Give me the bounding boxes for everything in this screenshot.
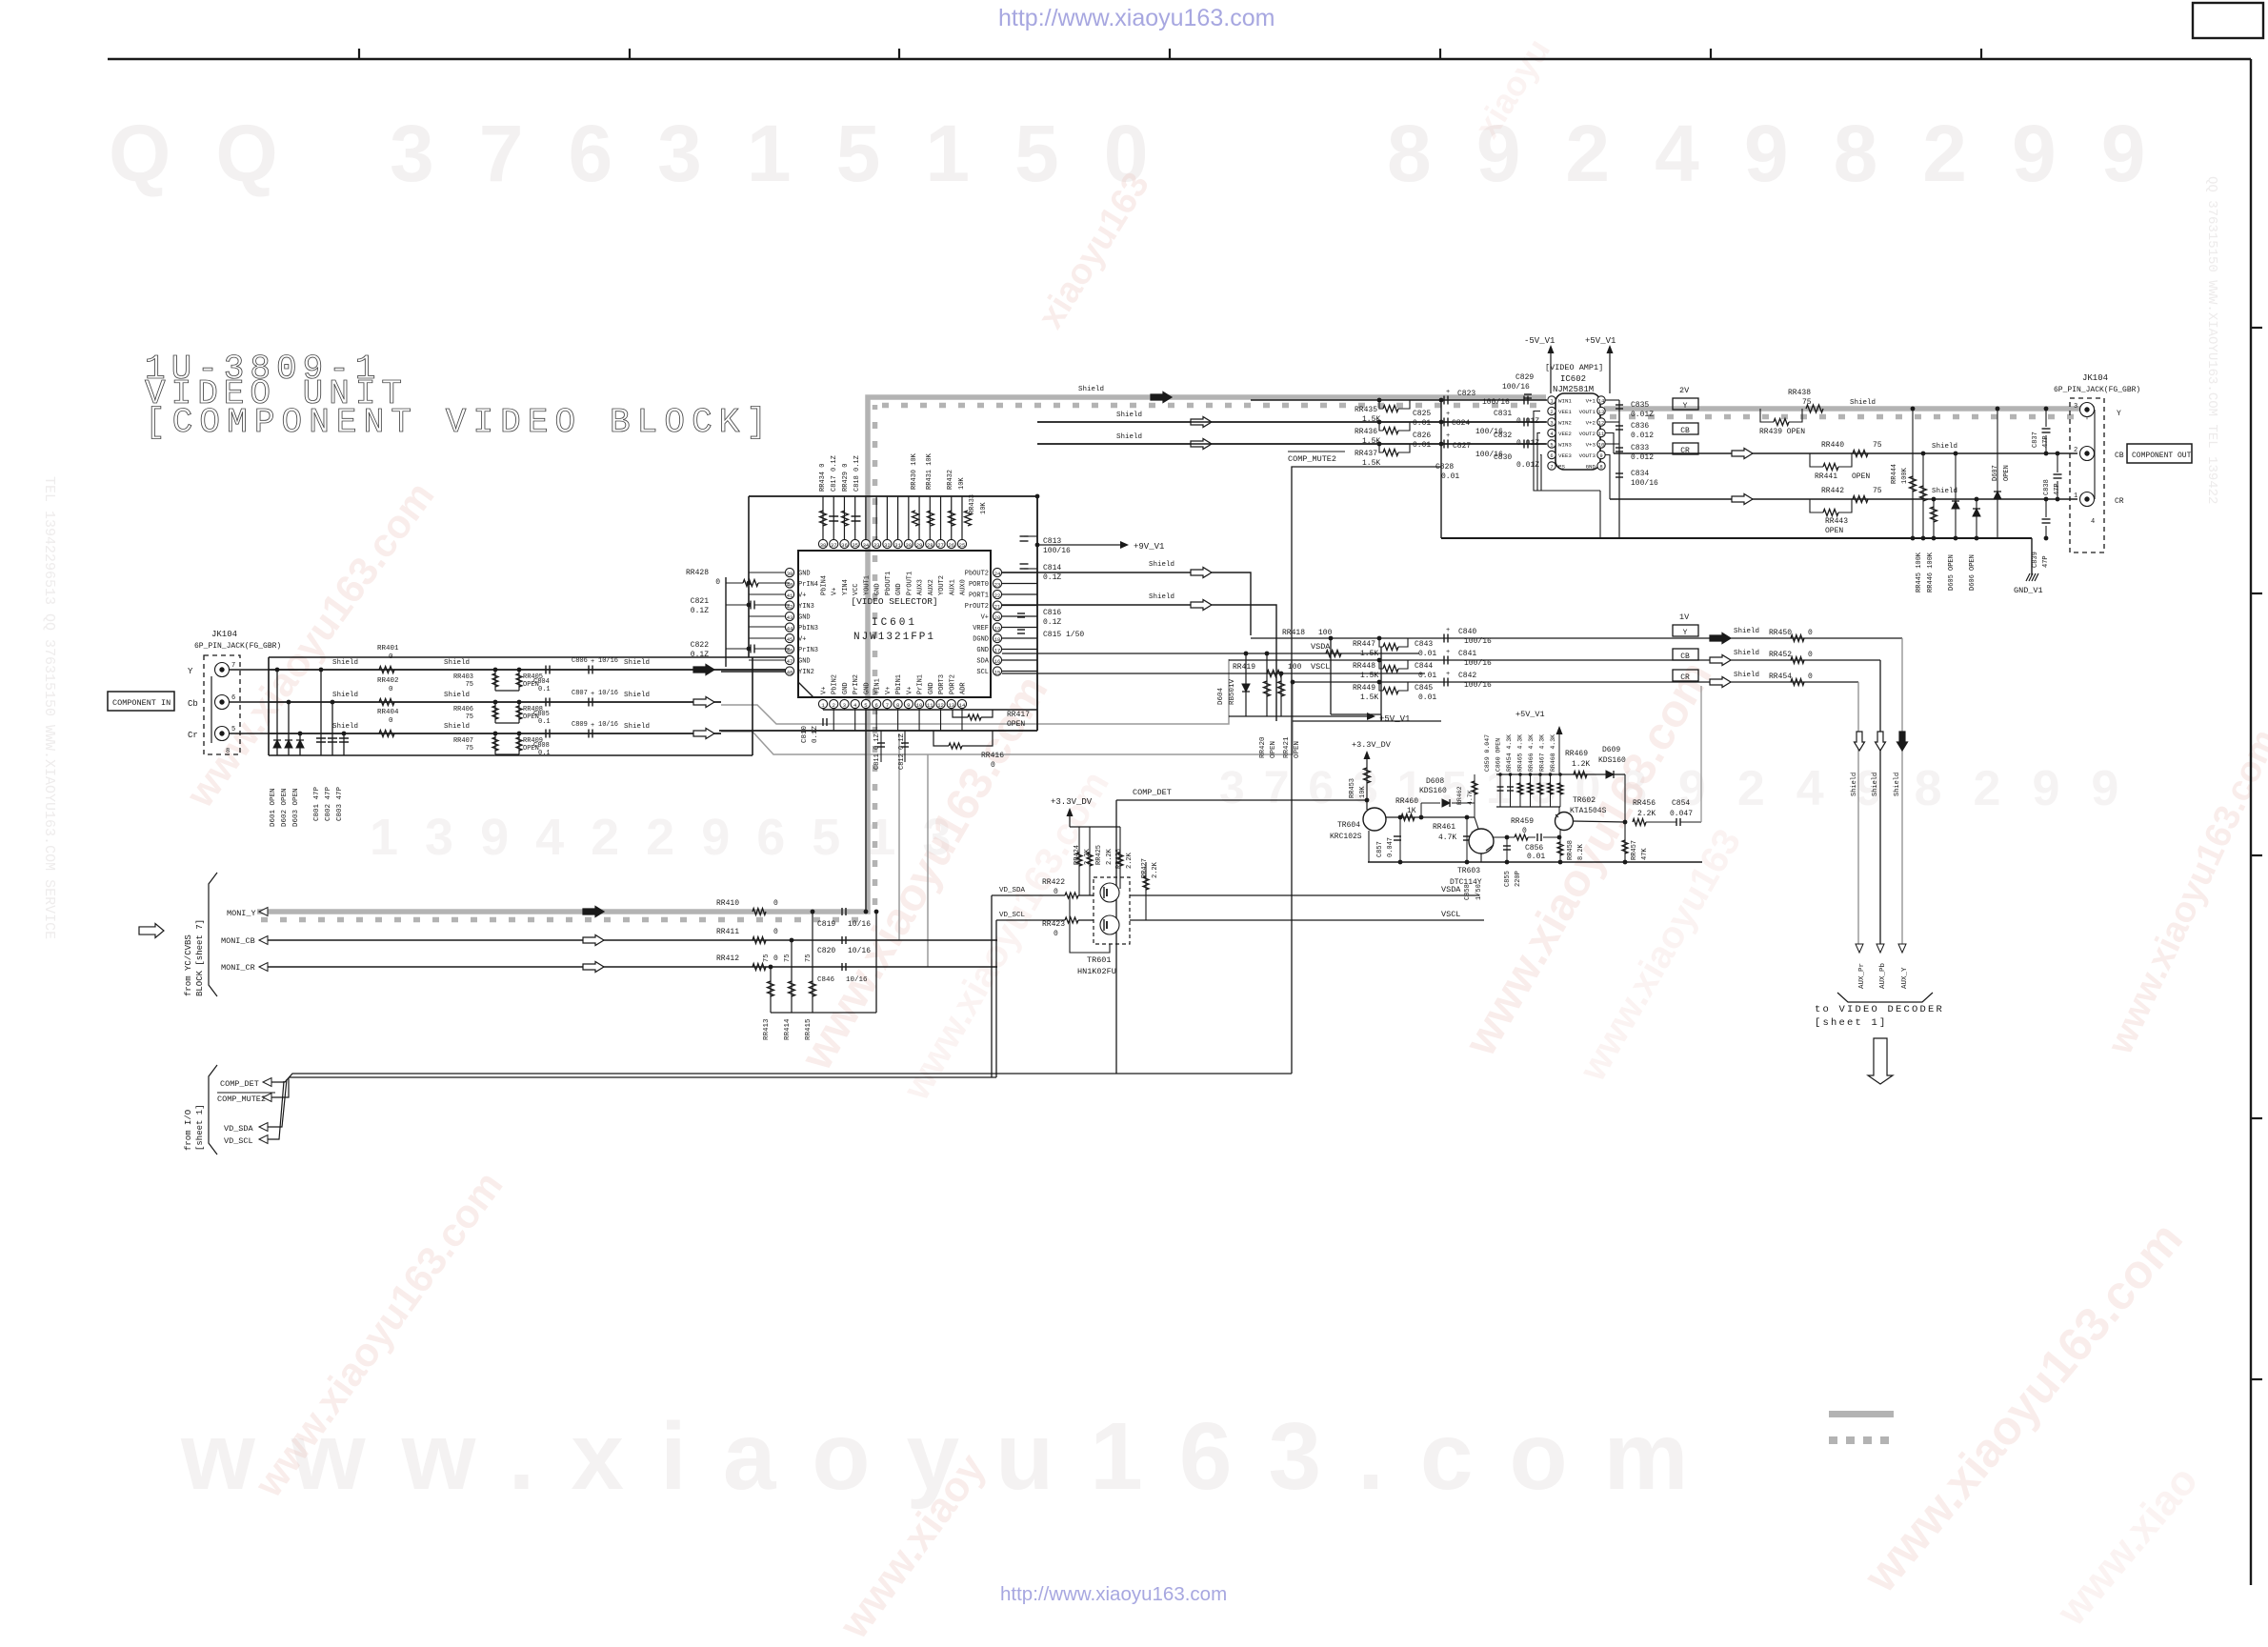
svg-text:HN1K02FU: HN1K02FU	[1077, 967, 1116, 976]
svg-text:75: 75	[466, 713, 473, 721]
svg-text:C857: C857	[1376, 841, 1384, 857]
svg-text:0: 0	[1808, 673, 1813, 681]
svg-text:24: 24	[994, 571, 1001, 577]
svg-text:Shield: Shield	[1932, 443, 1957, 451]
svg-text:8.2K: 8.2K	[1577, 843, 1585, 860]
svg-text:4: 4	[2091, 518, 2095, 526]
svg-text:100/16: 100/16	[1502, 383, 1530, 392]
svg-text:11: 11	[1598, 431, 1605, 437]
svg-text:Shield: Shield	[1078, 386, 1104, 393]
svg-text:26: 26	[948, 542, 954, 549]
svg-text:PbOUT2: PbOUT2	[965, 571, 989, 578]
svg-text:PbIN2: PbIN2	[832, 674, 839, 694]
svg-text:2.2K: 2.2K	[1106, 848, 1114, 865]
svg-text:C812 0.1Z: C812 0.1Z	[898, 733, 906, 770]
svg-text:47: 47	[787, 658, 793, 665]
svg-text:PORT0: PORT0	[969, 581, 989, 589]
svg-text:RR432: RR432	[947, 470, 954, 490]
svg-text:RR434 0: RR434 0	[819, 464, 827, 492]
svg-text:JK104: JK104	[2082, 373, 2108, 383]
svg-text:RR462: RR462	[1456, 786, 1463, 805]
svg-text:Shield: Shield	[332, 659, 358, 667]
svg-text:12: 12	[1598, 420, 1605, 427]
svg-text:PrIN4: PrIN4	[798, 581, 818, 589]
svg-text:10K: 10K	[1359, 786, 1367, 798]
svg-text:0.012: 0.012	[1631, 432, 1654, 440]
svg-text:11: 11	[927, 702, 933, 709]
svg-text:0.01: 0.01	[1413, 441, 1431, 450]
svg-text:100: 100	[1318, 629, 1333, 637]
svg-text:C856: C856	[1525, 844, 1543, 853]
svg-text:DGND: DGND	[973, 636, 989, 644]
svg-text:C844: C844	[1415, 662, 1433, 671]
svg-text:2.2K: 2.2K	[1126, 852, 1134, 869]
svg-text:C845: C845	[1415, 684, 1433, 693]
svg-text:RR415: RR415	[805, 1018, 813, 1040]
svg-text:V+: V+	[885, 687, 893, 694]
svg-text:RR445 100K: RR445 100K	[1916, 552, 1923, 593]
svg-text:BLOCK [sheet 7]: BLOCK [sheet 7]	[195, 919, 205, 996]
svg-text:COMP_DET: COMP_DET	[220, 1079, 259, 1089]
svg-text:C815 1/50: C815 1/50	[1043, 631, 1084, 639]
svg-text:C829: C829	[1515, 373, 1534, 382]
svg-text:D608: D608	[1426, 777, 1444, 786]
svg-text:OPEN: OPEN	[1270, 741, 1277, 758]
svg-text:0.01: 0.01	[1418, 650, 1436, 658]
svg-text:4.7K: 4.7K	[1467, 790, 1474, 805]
svg-text:10/16: 10/16	[598, 721, 618, 729]
svg-text:3: 3	[843, 702, 846, 709]
svg-text:PbOUT1: PbOUT1	[885, 572, 893, 595]
svg-text:PbIN4: PbIN4	[821, 575, 829, 595]
svg-text:0: 0	[991, 761, 995, 770]
svg-text:10: 10	[1598, 442, 1605, 449]
svg-text:8: 8	[1599, 464, 1602, 471]
svg-text:C811 0.1Z: C811 0.1Z	[873, 733, 881, 770]
svg-text:MONI_CR: MONI_CR	[221, 963, 255, 973]
svg-text:6P_PIN_JACK(FG_GBR): 6P_PIN_JACK(FG_GBR)	[194, 642, 281, 651]
svg-text:RR457: RR457	[1631, 840, 1638, 860]
svg-text:2.2K: 2.2K	[1152, 861, 1159, 878]
svg-text:41: 41	[787, 593, 793, 599]
svg-text:RR428: RR428	[686, 569, 709, 577]
svg-text:+3.3V_DV: +3.3V_DV	[1352, 740, 1392, 750]
svg-text:6: 6	[874, 702, 877, 709]
svg-text:30: 30	[906, 542, 913, 549]
svg-text:VD_SDA: VD_SDA	[224, 1124, 254, 1134]
svg-text:4.7K: 4.7K	[1438, 834, 1456, 842]
svg-text:40: 40	[787, 581, 793, 588]
svg-text:38: 38	[820, 542, 827, 549]
svg-text:+3.3V_DV: +3.3V_DV	[1051, 797, 1093, 807]
svg-text:GND: GND	[1586, 464, 1596, 471]
svg-text:Y: Y	[1683, 402, 1688, 411]
svg-text:Shield: Shield	[444, 723, 470, 731]
svg-text:31: 31	[894, 542, 901, 549]
svg-text:V+2: V+2	[1586, 420, 1596, 427]
svg-text:D606 OPEN: D606 OPEN	[1969, 554, 1977, 591]
svg-text:D602 OPEN: D602 OPEN	[281, 788, 289, 827]
svg-text:25: 25	[959, 542, 966, 549]
svg-text:9: 9	[907, 702, 910, 709]
svg-text:C813: C813	[1043, 537, 1061, 546]
svg-text:VOUT2: VOUT2	[1579, 431, 1596, 437]
svg-text:0: 0	[715, 578, 720, 587]
svg-text:RR423: RR423	[1042, 920, 1065, 929]
svg-text:C801 47P: C801 47P	[313, 786, 321, 821]
svg-text:100/16: 100/16	[1464, 637, 1492, 646]
svg-text:VCC: VCC	[853, 583, 860, 595]
svg-text:PORT1: PORT1	[969, 593, 989, 600]
svg-text:TR604: TR604	[1337, 821, 1360, 830]
svg-text:RR447: RR447	[1353, 640, 1375, 649]
svg-text:10/16: 10/16	[848, 920, 871, 929]
svg-text:NJW1321FP1: NJW1321FP1	[853, 632, 935, 643]
svg-text:D604: D604	[1217, 687, 1225, 705]
svg-text:Shield: Shield	[1894, 773, 1901, 796]
svg-text:34: 34	[863, 542, 870, 549]
svg-text:VEE1: VEE1	[1558, 409, 1572, 415]
svg-text:RR417: RR417	[1007, 711, 1030, 719]
svg-text:C854: C854	[1672, 799, 1690, 808]
svg-text:0: 0	[773, 954, 778, 963]
svg-text:PS: PS	[1558, 464, 1565, 471]
svg-text:RR452: RR452	[1769, 651, 1792, 659]
svg-text:RR467 4.3K: RR467 4.3K	[1539, 734, 1546, 772]
svg-text:YOUT2: YOUT2	[938, 575, 946, 595]
svg-text:WIN2: WIN2	[1558, 420, 1572, 427]
svg-text:RR439 OPEN: RR439 OPEN	[1759, 428, 1805, 436]
svg-text:9: 9	[1599, 452, 1602, 459]
svg-text:RR440: RR440	[1821, 441, 1844, 450]
svg-text:RR418: RR418	[1282, 629, 1305, 637]
svg-text:V+: V+	[798, 636, 806, 644]
svg-text:46: 46	[787, 647, 793, 653]
svg-text:RR425: RR425	[1095, 845, 1103, 865]
svg-text:C818 0.1Z: C818 0.1Z	[853, 455, 861, 492]
svg-text:GND: GND	[874, 583, 882, 595]
svg-text:C820: C820	[817, 947, 835, 955]
svg-text:YIN4: YIN4	[842, 579, 850, 595]
svg-text:3: 3	[1550, 420, 1553, 427]
svg-text:C839: C839	[2032, 552, 2039, 568]
svg-text:220P: 220P	[1515, 871, 1522, 887]
svg-text:47P: 47P	[2054, 483, 2061, 495]
svg-text:C836: C836	[1631, 422, 1649, 431]
svg-text:19: 19	[994, 625, 1001, 632]
svg-text:28: 28	[927, 542, 933, 549]
svg-text:C803 47P: C803 47P	[336, 786, 344, 821]
svg-text:KDS160: KDS160	[1598, 756, 1626, 765]
svg-text:+: +	[1446, 389, 1450, 396]
svg-text:RR416: RR416	[981, 752, 1004, 760]
svg-text:18: 18	[994, 636, 1001, 643]
svg-text:+5V_V1: +5V_V1	[1379, 714, 1410, 724]
svg-text:36: 36	[841, 542, 848, 549]
svg-text:KRC102S: KRC102S	[1330, 833, 1362, 841]
svg-text:RR448: RR448	[1353, 662, 1375, 671]
svg-text:10/16: 10/16	[848, 947, 871, 955]
svg-text:39: 39	[787, 571, 793, 577]
svg-text:RR456: RR456	[1633, 799, 1656, 808]
svg-text:RR459: RR459	[1511, 817, 1534, 826]
svg-text:C814: C814	[1043, 564, 1061, 572]
svg-text:D609: D609	[1602, 746, 1620, 754]
svg-text:GND: GND	[976, 647, 989, 654]
svg-text:37: 37	[831, 542, 837, 549]
svg-text:C809: C809	[572, 721, 588, 729]
svg-text:RR461: RR461	[1433, 823, 1455, 832]
svg-text:RR431 10K: RR431 10K	[926, 452, 933, 490]
svg-text:5: 5	[231, 726, 235, 733]
svg-text:2: 2	[833, 702, 835, 709]
svg-text:+: +	[1446, 649, 1450, 656]
svg-text:13: 13	[1598, 409, 1605, 415]
svg-text:CB: CB	[1680, 653, 1690, 661]
svg-text:RR433: RR433	[969, 494, 976, 514]
svg-text:PrIN3: PrIN3	[798, 647, 818, 654]
svg-text:0: 0	[1808, 629, 1813, 637]
svg-text:V+: V+	[832, 588, 839, 595]
svg-text:VOUT3: VOUT3	[1579, 452, 1596, 459]
svg-text:+: +	[591, 658, 594, 666]
svg-text:75: 75	[805, 954, 813, 962]
svg-text:V+: V+	[906, 687, 913, 694]
svg-text:5: 5	[864, 702, 867, 709]
svg-text:75: 75	[1873, 441, 1882, 450]
svg-text:Shield: Shield	[624, 659, 650, 667]
svg-text:VD_SCL: VD_SCL	[999, 912, 1026, 919]
svg-text:V+: V+	[821, 687, 829, 694]
svg-text:RR458: RR458	[1567, 840, 1575, 860]
svg-text:C855: C855	[1504, 871, 1512, 887]
svg-text:10: 10	[916, 702, 923, 709]
svg-text:PbIN1: PbIN1	[895, 674, 903, 694]
svg-text:PORT2: PORT2	[949, 674, 956, 694]
svg-text:+: +	[1446, 432, 1450, 440]
svg-text:14: 14	[1598, 398, 1605, 405]
svg-text:75: 75	[1802, 398, 1812, 407]
svg-text:RR414: RR414	[784, 1018, 792, 1040]
svg-text:C802 47P: C802 47P	[325, 786, 332, 821]
svg-text:C859 0.047: C859 0.047	[1484, 734, 1491, 772]
svg-text:Shield: Shield	[1872, 773, 1879, 796]
svg-text:RR443: RR443	[1825, 517, 1848, 526]
svg-text:+: +	[591, 691, 594, 698]
svg-text:Shield: Shield	[1850, 399, 1876, 407]
svg-text:SCL: SCL	[976, 669, 989, 676]
svg-text:RR411: RR411	[716, 928, 739, 936]
svg-text:Cr: Cr	[188, 731, 198, 740]
svg-text:PrIN1: PrIN1	[917, 674, 925, 694]
svg-text:0.1Z: 0.1Z	[812, 725, 819, 743]
svg-text:Cb: Cb	[188, 699, 198, 709]
svg-text:0.1Z: 0.1Z	[691, 607, 709, 615]
svg-text:RR465 4.3K: RR465 4.3K	[1517, 734, 1524, 772]
svg-text:RR469: RR469	[1565, 750, 1588, 758]
svg-text:[sheet 1]: [sheet 1]	[195, 1104, 205, 1151]
svg-text:RR430 10K: RR430 10K	[911, 452, 918, 490]
svg-text:35: 35	[852, 542, 858, 549]
svg-text:Shield: Shield	[332, 723, 358, 731]
svg-text:0: 0	[773, 899, 778, 908]
svg-text:D603 OPEN: D603 OPEN	[292, 788, 300, 827]
svg-text:C828: C828	[1435, 463, 1454, 472]
svg-text:TR601: TR601	[1087, 955, 1112, 965]
svg-text:1: 1	[2074, 492, 2077, 500]
svg-text:RR435: RR435	[1355, 406, 1377, 414]
svg-text:RR436: RR436	[1355, 428, 1377, 436]
svg-text:RR412: RR412	[716, 954, 739, 963]
svg-text:CR: CR	[2115, 497, 2124, 506]
svg-text:AUX_Pb: AUX_Pb	[1879, 963, 1887, 989]
svg-text:PrOUT1: PrOUT1	[906, 572, 913, 595]
svg-text:Shield: Shield	[1932, 488, 1957, 495]
svg-text:RR460: RR460	[1395, 797, 1418, 806]
svg-text:+9V_V1: +9V_V1	[1134, 542, 1164, 552]
svg-text:AUX_Pr: AUX_Pr	[1858, 963, 1866, 989]
svg-text:1.5K: 1.5K	[1360, 650, 1378, 658]
svg-text:COMPONENT IN: COMPONENT IN	[112, 698, 171, 708]
svg-text:27: 27	[937, 542, 944, 549]
svg-text:VSDA: VSDA	[1311, 642, 1331, 652]
svg-text:+: +	[591, 722, 594, 730]
svg-text:KDS160: KDS160	[1419, 787, 1447, 795]
svg-text:RR404: RR404	[377, 709, 399, 716]
svg-text:3: 3	[2074, 403, 2077, 411]
svg-text:100/16: 100/16	[1464, 681, 1492, 690]
svg-text:RR420: RR420	[1259, 736, 1267, 758]
svg-text:VSCL: VSCL	[1311, 662, 1330, 672]
svg-text:1.5K: 1.5K	[1360, 693, 1378, 702]
svg-text:2V: 2V	[1679, 386, 1690, 395]
svg-text:1.2K: 1.2K	[1572, 760, 1590, 769]
svg-text:COMP_MUTE2: COMP_MUTE2	[1288, 454, 1336, 464]
svg-text:MONI_CB: MONI_CB	[221, 936, 255, 946]
svg-text:RR422: RR422	[1042, 878, 1065, 887]
svg-text:13: 13	[948, 702, 954, 709]
svg-text:44: 44	[787, 625, 793, 632]
svg-text:RR413: RR413	[763, 1018, 771, 1040]
svg-text:D605 OPEN: D605 OPEN	[1948, 554, 1956, 591]
svg-text:Shield: Shield	[624, 692, 650, 699]
svg-text:GND: GND	[798, 614, 811, 622]
svg-text:RR429 0: RR429 0	[842, 464, 850, 492]
svg-text:AUX_Y: AUX_Y	[1901, 967, 1909, 989]
svg-text:6: 6	[231, 694, 235, 702]
svg-text:+: +	[1446, 671, 1450, 678]
svg-text:[VIDEO AMP1]: [VIDEO AMP1]	[1545, 363, 1603, 372]
svg-text:Shield: Shield	[1734, 650, 1759, 657]
svg-text:C823: C823	[1457, 390, 1475, 398]
svg-text:GND: GND	[842, 682, 850, 694]
svg-text:RR442: RR442	[1821, 487, 1844, 495]
svg-text:Shield: Shield	[1734, 672, 1759, 679]
svg-text:75: 75	[466, 681, 473, 689]
svg-text:C832: C832	[1494, 432, 1512, 440]
svg-text:0.1: 0.1	[538, 686, 551, 693]
svg-text:KTA1504S: KTA1504S	[1570, 807, 1607, 815]
svg-text:10/16: 10/16	[846, 976, 868, 984]
svg-text:C810: C810	[801, 725, 809, 743]
svg-text:C860 OPEN: C860 OPEN	[1495, 738, 1502, 772]
svg-text:0: 0	[1054, 930, 1058, 938]
svg-text:10/16: 10/16	[598, 690, 618, 697]
svg-text:IC602: IC602	[1560, 374, 1586, 384]
svg-text:-5V_V1: -5V_V1	[1524, 336, 1555, 346]
svg-text:VREF: VREF	[973, 625, 989, 633]
svg-text:C816: C816	[1043, 609, 1061, 617]
svg-text:+: +	[1446, 627, 1450, 634]
svg-text:2: 2	[1550, 409, 1553, 415]
svg-text:C835: C835	[1631, 401, 1649, 410]
svg-text:Y: Y	[188, 667, 193, 676]
svg-text:32: 32	[884, 542, 891, 549]
svg-text:RR406: RR406	[453, 706, 473, 713]
svg-text:1.5K: 1.5K	[1362, 459, 1380, 468]
svg-text:C807: C807	[572, 690, 588, 697]
svg-text:0.01: 0.01	[1413, 419, 1431, 428]
svg-text:47P: 47P	[2042, 555, 2050, 568]
svg-text:C831: C831	[1494, 410, 1512, 418]
svg-text:RR446 100K: RR446 100K	[1927, 552, 1935, 593]
svg-text:Shield: Shield	[332, 692, 358, 699]
svg-text:8: 8	[226, 748, 230, 755]
svg-text:RR441: RR441	[1815, 472, 1837, 481]
svg-text:43: 43	[787, 614, 793, 621]
svg-text:C805: C805	[533, 711, 550, 718]
svg-text:0: 0	[389, 653, 393, 661]
svg-text:GND: GND	[895, 583, 903, 595]
svg-text:OPEN: OPEN	[2003, 465, 2011, 481]
svg-text:WIN1: WIN1	[1558, 398, 1572, 405]
svg-text:RR403: RR403	[453, 673, 473, 681]
svg-text:12: 12	[937, 702, 944, 709]
svg-text:from I/O: from I/O	[184, 1110, 193, 1151]
svg-text:45: 45	[787, 636, 793, 643]
svg-text:RR402: RR402	[377, 677, 399, 685]
svg-text:8: 8	[896, 702, 899, 709]
svg-text:D607: D607	[1992, 465, 1999, 481]
svg-text:Shield: Shield	[444, 692, 470, 699]
svg-text:V+: V+	[798, 593, 806, 600]
svg-text:PrOUT2: PrOUT2	[965, 603, 989, 611]
svg-text:21: 21	[994, 603, 1001, 610]
svg-text:AUX0: AUX0	[959, 579, 967, 595]
svg-text:17: 17	[994, 647, 1001, 653]
svg-text:RR453: RR453	[1349, 778, 1356, 798]
svg-text:VSCL: VSCL	[1441, 910, 1460, 919]
svg-text:Shield: Shield	[1734, 628, 1759, 635]
svg-text:PrIN2: PrIN2	[853, 674, 860, 694]
svg-text:48: 48	[787, 669, 793, 675]
svg-text:C804: C804	[533, 678, 550, 686]
svg-text:75: 75	[784, 954, 792, 962]
svg-text:C826: C826	[1413, 432, 1431, 440]
svg-text:100/16: 100/16	[1482, 398, 1510, 407]
svg-text:AUX1: AUX1	[949, 579, 956, 595]
svg-text:0.01: 0.01	[1418, 693, 1436, 702]
svg-text:0.01: 0.01	[1527, 853, 1545, 861]
svg-text:TR602: TR602	[1573, 796, 1596, 805]
svg-text:C827: C827	[1453, 442, 1471, 451]
svg-text:0: 0	[389, 686, 393, 693]
svg-text:JK104: JK104	[211, 630, 237, 639]
svg-text:Shield: Shield	[624, 723, 650, 731]
svg-text:6P_PIN_JACK(FG_GBR): 6P_PIN_JACK(FG_GBR)	[2054, 386, 2140, 394]
svg-text:C846: C846	[817, 976, 835, 984]
svg-text:2: 2	[2074, 447, 2077, 454]
